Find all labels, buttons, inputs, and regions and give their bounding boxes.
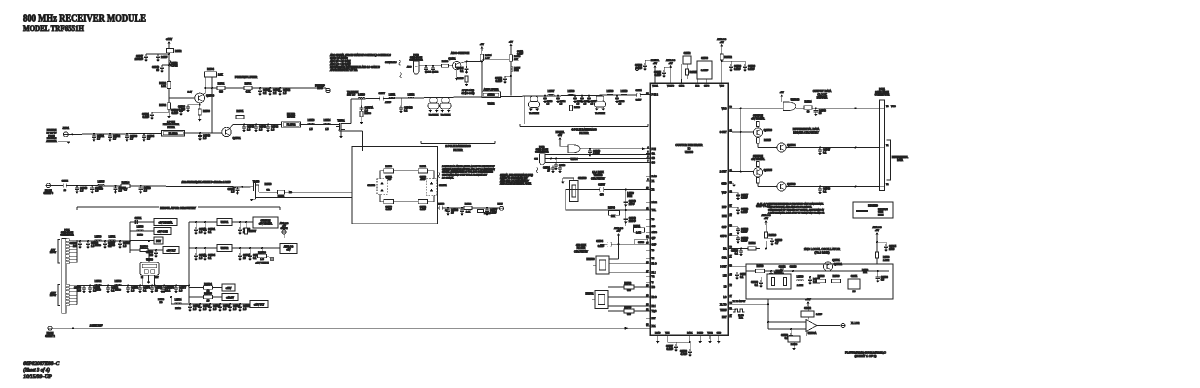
svg-text:LO SIGNAL.: LO SIGNAL. [442, 176, 454, 179]
svg-text:(73.8 MHZ): (73.8 MHZ) [814, 251, 829, 255]
svg-text:RECEIVE: RECEIVE [47, 138, 57, 140]
svg-text:L2505: L2505 [98, 180, 105, 183]
svg-text:R2560: R2560 [757, 266, 764, 268]
svg-text:A DIFFERENTIAL DATA OUTPUT FRO: A DIFFERENTIAL DATA OUTPUT FROM PINS 58 … [767, 211, 825, 214]
svg-text:+10.0V: +10.0V [226, 297, 234, 300]
svg-text:0.1UF: 0.1UF [598, 246, 605, 248]
svg-text:T2501: T2501 [337, 119, 345, 123]
svg-text:FROM: FROM [47, 333, 54, 335]
svg-text:66P82087E88–C: 66P82087E88–C [23, 362, 60, 367]
svg-text:L2514: L2514 [324, 119, 331, 122]
svg-text:1-POLE: 1-POLE [167, 122, 175, 124]
svg-text:R2512: R2512 [724, 55, 732, 59]
svg-text:R2536: R2536 [818, 276, 825, 278]
svg-text:C2514: C2514 [635, 90, 642, 92]
svg-text:4.7UF: 4.7UF [680, 353, 687, 356]
svg-text:ANALOG: ANALOG [761, 214, 770, 217]
svg-text:R2560: R2560 [791, 344, 798, 346]
svg-text:R2534: R2534 [207, 69, 214, 71]
svg-text:C2562: C2562 [804, 308, 811, 310]
svg-text:0.1UF: 0.1UF [420, 209, 427, 211]
svg-text:Q2504: Q2504 [787, 143, 796, 147]
svg-text:1500: 1500 [889, 248, 895, 251]
svg-text:C2101: C2101 [425, 71, 432, 73]
svg-text:C2612: C2612 [779, 267, 786, 269]
svg-text:R2544: R2544 [608, 208, 615, 210]
svg-text:100: 100 [77, 289, 82, 292]
svg-text:BEAD: BEAD [137, 234, 143, 237]
svg-text:APPROXIMATELY 17 DB.: APPROXIMATELY 17 DB. [329, 69, 358, 72]
svg-text:+10V SENSE: +10V SENSE [255, 263, 269, 265]
svg-text:C2577: C2577 [378, 93, 385, 95]
svg-text:1.8: 1.8 [260, 257, 264, 261]
svg-text:LINES TO PROGRAM 1ST: LINES TO PROGRAM 1ST [500, 177, 528, 180]
svg-text:CENTRIA RECEIVE (INPUT) AND 1S: CENTRIA RECEIVE (INPUT) AND 1ST LO INJEC… [442, 168, 495, 171]
svg-text:+5V: +5V [764, 218, 768, 220]
svg-text:0.1UF: 0.1UF [517, 54, 524, 56]
svg-text:CIRCUITRY) AND OUTPUTS A 73.35: CIRCUITRY) AND OUTPUTS A 73.35MHZ 1ST [442, 174, 488, 177]
svg-text:0.1UF: 0.1UF [734, 68, 741, 71]
svg-text:CUSTOM RECEIVER IC PROVIDES O: CUSTOM RECEIVER IC PROVIDES ONE CONDITIO… [768, 203, 824, 206]
svg-text:+5V DIGITAL: +5V DIGITAL [751, 158, 765, 161]
svg-text:HG: HG [652, 287, 656, 289]
svg-text:MODEL TRF6551H: MODEL TRF6551H [23, 24, 84, 33]
svg-text:+12V: +12V [805, 299, 811, 301]
svg-text:R2502: R2502 [624, 283, 631, 285]
svg-text:VCP: VCP [722, 193, 727, 195]
svg-text:SIDE: SIDE [878, 212, 884, 214]
svg-text:Q2501: Q2501 [233, 136, 242, 140]
svg-text:C2613: C2613 [790, 267, 797, 269]
svg-text:BUH: BUH [627, 196, 632, 198]
svg-text:+5V: +5V [875, 230, 879, 232]
svg-text:+5V: +5V [669, 63, 673, 65]
svg-text:R2109: R2109 [485, 55, 492, 57]
svg-text:DRIVER CIRCUITRY: DRIVER CIRCUITRY [793, 130, 819, 134]
svg-text:Q2500: Q2500 [206, 94, 215, 98]
svg-text:D5V: D5V [156, 240, 161, 243]
svg-text:0.1UF: 0.1UF [636, 100, 642, 102]
svg-text:CONNECTOR: CONNECTOR [875, 95, 890, 97]
svg-text:ANALOG: ANALOG [280, 222, 289, 225]
svg-text:SHEET 2: SHEET 2 [45, 336, 55, 338]
svg-text:INPUT: INPUT [50, 295, 57, 297]
svg-text:DIGITAL: DIGITAL [556, 131, 565, 134]
svg-text:XL LO2: XL LO2 [851, 322, 860, 325]
svg-text:VCC: VCC [720, 86, 725, 88]
svg-text:R2105: R2105 [457, 78, 464, 80]
svg-text:R2538: R2538 [833, 276, 840, 278]
svg-text:100: 100 [73, 245, 78, 248]
svg-text:R2515: R2515 [764, 140, 771, 142]
svg-text:L2561: L2561 [109, 236, 116, 239]
svg-text:CONVERSION OF THE 2ND ILF: CONVERSION OF THE 2ND ILF SIGNAL, RESULT… [768, 208, 824, 211]
svg-text:CARD EDGE: CARD EDGE [875, 91, 889, 94]
svg-text:F1 O: F1 O [652, 264, 657, 266]
svg-text:GND: GND [721, 184, 726, 186]
svg-text:F1 I: F1 I [652, 273, 656, 275]
svg-text:F2 I: F2 I [652, 306, 656, 308]
svg-text:U2503B: U2503B [791, 99, 800, 102]
svg-text:L2562: L2562 [95, 280, 102, 283]
svg-text:2.2UH: 2.2UH [797, 285, 804, 287]
svg-text:0.1UF: 0.1UF [741, 211, 748, 214]
svg-text:R2513: R2513 [574, 107, 581, 109]
svg-text:2 MHZ REF: 2 MHZ REF [89, 324, 103, 327]
svg-text:2-POLE BANDPASS: 2-POLE BANDPASS [445, 144, 471, 148]
svg-text:RF INPUT: RF INPUT [46, 132, 57, 134]
svg-text:L2508: L2508 [568, 90, 575, 93]
svg-text:CARD EDGE: CARD EDGE [61, 231, 74, 234]
svg-text:R2568: R2568 [258, 250, 266, 254]
svg-text:AMPLIFIER: AMPLIFIER [483, 87, 498, 91]
svg-text:FLAG: FLAG [652, 175, 658, 178]
svg-text:LIN: LIN [723, 276, 727, 278]
svg-text:C2504: C2504 [596, 241, 603, 243]
svg-text:CAP: CAP [652, 243, 657, 246]
svg-text:SLB: SLB [652, 226, 656, 228]
svg-text:T2560: T2560 [776, 271, 783, 273]
svg-text:GND: GND [717, 332, 722, 334]
svg-text:R2522: R2522 [465, 203, 472, 205]
svg-text:CARD EDGE: CARD EDGE [410, 56, 423, 59]
svg-text:47UF: 47UF [420, 179, 426, 181]
svg-text:0.1UF: 0.1UF [654, 74, 661, 77]
svg-text:DAD1: DAD1 [687, 331, 693, 334]
svg-text:CSA: CSA [722, 257, 727, 260]
svg-text:OR: OR [266, 190, 270, 192]
svg-text:2.2K: 2.2K [218, 75, 223, 77]
svg-text:F2 O: F2 O [652, 297, 657, 299]
svg-text:0.1UF: 0.1UF [593, 153, 600, 156]
svg-text:0.1UF: 0.1UF [741, 196, 748, 199]
svg-text:73.35MHZ: 73.35MHZ [429, 114, 439, 116]
svg-text:0.1UF: 0.1UF [495, 80, 502, 83]
svg-text:DIFFERENTIAL: DIFFERENTIAL [892, 156, 909, 159]
svg-text:INPUT: INPUT [50, 252, 57, 254]
svg-text:+5V: +5V [617, 231, 621, 233]
svg-text:RECEIVE: RECEIVE [47, 130, 57, 132]
svg-text:R2566: R2566 [140, 245, 148, 249]
svg-text:ANTENNA: ANTENNA [46, 140, 57, 143]
svg-text:L2512: L2512 [175, 51, 182, 53]
svg-text:+5V: +5V [780, 92, 784, 94]
svg-text:CONNECTOR: CONNECTOR [60, 235, 74, 237]
svg-text:BEAD: BEAD [95, 244, 101, 247]
svg-text:73.35MHZ: 73.35MHZ [441, 114, 451, 116]
svg-text:XL1: XL1 [652, 326, 657, 328]
svg-text:ANALOG: ANALOG [872, 226, 881, 229]
svg-text:Q2505: Q2505 [764, 168, 773, 172]
svg-text:R2541: R2541 [245, 83, 252, 85]
svg-text:CIRCUITRY: CIRCUITRY [591, 176, 605, 180]
svg-text:4-POLE BANDPASS: 4-POLE BANDPASS [571, 127, 597, 131]
svg-text:SENSE: SENSE [280, 228, 288, 230]
svg-text:4.7UH: 4.7UH [171, 66, 178, 68]
svg-text:U2561: U2561 [221, 220, 229, 224]
svg-text:+10V FLT: +10V FLT [254, 304, 265, 307]
svg-text:CR2500: CR2500 [578, 178, 587, 180]
svg-text:XL TO INPUT: XL TO INPUT [733, 301, 746, 303]
svg-text:L2516: L2516 [308, 119, 315, 122]
svg-text:R2524: R2524 [804, 101, 812, 104]
svg-text:R2514: R2514 [122, 180, 130, 184]
svg-text:J2501: J2501 [63, 127, 70, 130]
svg-text:THRU: THRU [720, 310, 727, 312]
svg-text:Q2506: Q2506 [787, 182, 796, 186]
svg-text:FILTER: FILTER [287, 113, 295, 116]
svg-text:L2507: L2507 [548, 90, 555, 93]
svg-text:Q2101: Q2101 [448, 58, 456, 61]
svg-text:0.1UF: 0.1UF [748, 68, 755, 71]
svg-text:U2102: U2102 [487, 103, 495, 106]
svg-text:FILTER: FILTER [579, 131, 588, 135]
svg-text:ADC SWITCH: ADC SWITCH [451, 51, 469, 55]
svg-text:1.5K: 1.5K [161, 86, 166, 88]
svg-text:+5V DIGITAL: +5V DIGITAL [259, 223, 273, 226]
svg-text:1000PF: 1000PF [135, 58, 144, 61]
svg-text:U2500: U2500 [685, 150, 694, 154]
svg-text:L2568: L2568 [137, 226, 144, 229]
svg-text:RECEIVE: RECEIVE [878, 209, 888, 211]
svg-text:AND ALTER INTERNAL GAIN.: AND ALTER INTERNAL GAIN. [499, 183, 532, 186]
svg-text:BUH: BUH [514, 70, 519, 72]
svg-text:3 OUT: 3 OUT [720, 132, 727, 134]
svg-text:KF2500: KF2500 [586, 259, 595, 261]
svg-text:PATH: PATH [878, 213, 884, 216]
svg-text:0.1UF: 0.1UF [741, 240, 748, 243]
svg-text:N.C.: N.C. [739, 318, 744, 320]
svg-text:GC: GC [652, 163, 656, 165]
svg-text:VCC2: VCC2 [707, 332, 713, 334]
svg-text:C2102: C2102 [432, 71, 439, 73]
svg-text:0.01UF: 0.01UF [701, 70, 709, 72]
svg-text:U2504: U2504 [570, 158, 578, 161]
svg-text:DA: DA [723, 248, 727, 251]
svg-text:CUSTOM: CUSTOM [261, 221, 271, 223]
svg-text:P IN 2: P IN 2 [652, 95, 659, 97]
svg-text:DATA: DATA [897, 159, 903, 162]
svg-text:SBI: SBI [534, 158, 538, 160]
svg-text:+5V CON: +5V CON [157, 231, 168, 234]
svg-text:VCC: VCC [722, 108, 727, 110]
svg-text:0.1UF: 0.1UF [171, 112, 178, 115]
svg-text:2.2UF: 2.2UF [161, 57, 168, 59]
svg-text:BFE: BFE [722, 216, 727, 218]
svg-text:0.1UF: 0.1UF [386, 209, 393, 211]
svg-text:ADC: ADC [407, 65, 412, 68]
svg-text:1ST LO: 1ST LO [347, 94, 355, 97]
svg-text:10K: 10K [514, 59, 518, 61]
svg-text:220PF: 220PF [629, 220, 637, 223]
svg-text:+5V: +5V [480, 44, 484, 46]
svg-text:ANALOG: ANALOG [284, 246, 294, 249]
svg-text:TOL: TOL [652, 210, 657, 212]
svg-text:R2505: R2505 [624, 307, 631, 309]
svg-text:+5V: +5V [286, 250, 291, 252]
svg-text:CAP3: CAP3 [704, 85, 710, 88]
svg-text:L2512: L2512 [408, 93, 415, 96]
svg-text:C2578: C2578 [438, 203, 445, 205]
svg-text:XL TO: XL TO [720, 304, 727, 306]
svg-text:CAP: CAP [722, 226, 727, 229]
svg-text:C2500: C2500 [701, 58, 708, 60]
svg-text:SERIAL BUS INTERFACE (SBI): SERIAL BUS INTERFACE (SBI) [500, 174, 533, 177]
svg-text:R2570: R2570 [265, 184, 272, 186]
svg-text:800 MHz RECEIVER MODULE: 800 MHz RECEIVER MODULE [23, 13, 146, 25]
svg-text:AND 2ND LO FREQUENCY: AND 2ND LO FREQUENCY [499, 180, 529, 183]
svg-text:PRESELECTOR: PRESELECTOR [163, 124, 180, 126]
svg-text:U2560A: U2560A [808, 332, 817, 335]
svg-text:+5V DIGITAL: +5V DIGITAL [158, 222, 173, 225]
svg-text:2 OUT: 2 OUT [720, 172, 727, 174]
svg-text:GE100: GE100 [487, 95, 495, 97]
svg-text:F IN: F IN [652, 149, 657, 151]
svg-text:0.1UF: 0.1UF [142, 116, 149, 119]
svg-text:ANALOG: ANALOG [717, 38, 726, 41]
svg-text:0.1UF: 0.1UF [741, 231, 748, 234]
svg-text:CAP2: CAP2 [679, 85, 685, 88]
svg-text:C2503: C2503 [638, 242, 645, 244]
svg-text:L2510: L2510 [358, 93, 365, 96]
svg-text:U2562: U2562 [221, 246, 229, 250]
svg-text:FROM: FROM [45, 190, 52, 192]
svg-text:BEAD: BEAD [175, 307, 181, 310]
svg-text:CAPS: CAPS [720, 235, 727, 238]
svg-text:VEE: VEE [665, 332, 670, 334]
svg-text:+5V: +5V [509, 41, 513, 43]
svg-text:CONTROLS: CONTROLS [385, 62, 397, 64]
svg-text:R2530: R2530 [159, 83, 166, 85]
svg-text:I OUT: I OUT [720, 267, 727, 269]
svg-text:QIP: QIP [652, 238, 656, 240]
svg-text:FL2500: FL2500 [169, 131, 178, 135]
svg-text:LB: LB [724, 286, 727, 288]
svg-text:CR2571: CR2571 [439, 185, 447, 187]
svg-text:ANALOG: ANALOG [666, 59, 675, 62]
svg-text:1.8K: 1.8K [636, 233, 641, 235]
svg-text:REGULATOR CIRCUITRY: REGULATOR CIRCUITRY [160, 206, 196, 210]
svg-text:10K: 10K [611, 216, 616, 218]
svg-text:2V (HI GAIN): 2V (HI GAIN) [461, 89, 475, 92]
svg-text:+5V DIGITAL: +5V DIGITAL [751, 117, 765, 120]
svg-text:CIRCUITRY: CIRCUITRY [574, 249, 588, 253]
svg-text:+5V: +5V [720, 42, 724, 44]
svg-text:+5V: +5V [558, 135, 563, 137]
svg-text:BUFFER: BUFFER [817, 96, 828, 100]
svg-text:R2501: R2501 [633, 226, 640, 228]
svg-text:0V (LO GAIN): 0V (LO GAIN) [462, 92, 475, 95]
svg-text:BIAS: BIAS [317, 87, 323, 90]
svg-text:L2511: L2511 [389, 93, 396, 96]
svg-text:SHEET 3: SHEET 3 [44, 193, 54, 195]
svg-text:(SHEET 1 OF 2): (SHEET 1 OF 2) [855, 354, 877, 358]
svg-text:+5V FLT: +5V FLT [166, 250, 176, 253]
svg-text:R2531: R2531 [218, 83, 225, 85]
svg-text:0.1UF: 0.1UF [666, 348, 673, 351]
svg-text:0.1UF: 0.1UF [816, 314, 823, 316]
svg-text:CAPB: CAPB [652, 231, 658, 234]
svg-text:R2571: R2571 [420, 166, 427, 168]
svg-text:BFP: BFP [722, 207, 727, 209]
svg-text:Q2503: Q2503 [764, 128, 773, 132]
svg-text:C2611: C2611 [851, 276, 858, 278]
svg-text:R2564: R2564 [204, 282, 212, 286]
svg-text:CUSTOM: CUSTOM [753, 156, 763, 158]
svg-text:+12V: +12V [166, 37, 172, 41]
svg-text:R2570: R2570 [385, 166, 392, 168]
svg-text:C2514: C2514 [62, 181, 69, 183]
svg-text:CUSTOM: CUSTOM [753, 116, 763, 118]
svg-text:+12V: +12V [226, 287, 232, 290]
svg-text:TQC: TQC [652, 311, 657, 313]
svg-text:R2536: R2536 [203, 111, 210, 113]
svg-text:VQ: VQ [652, 276, 655, 278]
svg-text:0.1UF: 0.1UF [490, 212, 497, 215]
svg-text:73.35MHZ: 73.35MHZ [595, 113, 605, 115]
svg-text:132.45&#8211;151.65MHZ B=102d: 132.45&#8211;151.65MHZ B=102dBm LO210 [182, 181, 232, 184]
svg-text:DOUBLE BALANCED MIXER ACCEPTS: DOUBLE BALANCED MIXER ACCEPTS RECEIVE RF [442, 165, 495, 168]
svg-text:330: 330 [149, 254, 154, 257]
svg-text:PREAMPLIFIER: PREAMPLIFIER [235, 75, 258, 79]
svg-text:LEGEND: LEGEND [868, 205, 878, 208]
svg-text:LO: LO [723, 297, 726, 299]
svg-text:2.2UH: 2.2UH [883, 260, 890, 262]
svg-text:R2532: R2532 [159, 105, 166, 107]
svg-text:R2541: R2541 [236, 110, 244, 113]
svg-text:LOAD: LOAD [655, 331, 661, 334]
svg-text:FILTER: FILTER [453, 148, 462, 152]
svg-text:2.4V: 2.4V [188, 92, 193, 94]
svg-text:L2510: L2510 [621, 90, 628, 93]
svg-text:L2560: L2560 [95, 236, 102, 239]
svg-text:R2524: R2524 [749, 243, 756, 245]
svg-text:DGND: DGND [697, 332, 703, 334]
svg-text:AMPLIFICATION, AND ANALOG-TO: AMPLIFICATION, AND ANALOG-TO-DIGITAL [767, 205, 813, 208]
svg-text:MIX5: MIX5 [497, 204, 503, 206]
svg-text:CARD EDGE: CARD EDGE [536, 148, 549, 151]
svg-text:PREAMP: PREAMP [315, 84, 325, 87]
svg-text:4.7UF: 4.7UF [385, 102, 392, 104]
svg-text:L2509: L2509 [607, 90, 614, 93]
svg-text:U2560: U2560 [146, 260, 153, 262]
svg-text:R2567: R2567 [249, 229, 257, 233]
svg-text:CR2570: CR2570 [367, 185, 375, 187]
svg-text:R2110: R2110 [514, 56, 521, 58]
svg-text:C2561: C2561 [135, 218, 142, 220]
svg-text:73.35MHZ: 73.35MHZ [529, 113, 539, 115]
svg-text:DAC2: DAC2 [652, 201, 658, 204]
svg-text:C2537: C2537 [598, 185, 605, 187]
svg-text:VCCPD: VCCPD [667, 86, 675, 88]
svg-text:R2508: R2508 [365, 113, 372, 115]
svg-text:SIGNAL (GENERATED BY 900-4099: SIGNAL (GENERATED BY 900-4099 SYNTHESIZE… [442, 171, 493, 174]
svg-text:L2564: L2564 [175, 299, 182, 302]
svg-text:+5V: +5V [653, 63, 657, 65]
svg-text:P1/J1: P1/J1 [879, 89, 886, 91]
svg-text:GA: GA [652, 153, 656, 156]
svg-text:GB: GB [652, 158, 656, 160]
svg-text:1.3K: 1.3K [466, 212, 471, 214]
svg-text:L2563: L2563 [115, 280, 122, 283]
svg-text:FL2502: FL2502 [287, 123, 296, 127]
svg-text:R2511: R2511 [690, 70, 698, 74]
svg-text:EXT: EXT [722, 317, 727, 319]
svg-text:Q2561: Q2561 [832, 259, 840, 262]
svg-text:IMAGE: IMAGE [287, 116, 295, 119]
svg-text:FROM: FROM [48, 135, 55, 137]
svg-text:ANALOG: ANALOG [614, 227, 623, 230]
